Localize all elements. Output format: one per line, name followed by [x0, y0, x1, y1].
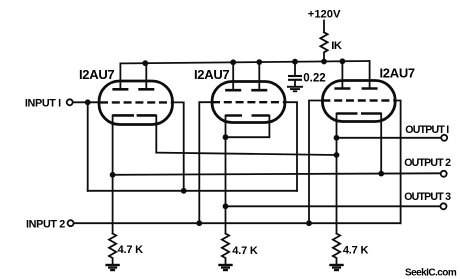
svg-text:INPUT 2: INPUT 2	[26, 219, 65, 231]
svg-text:4.7 K: 4.7 K	[232, 245, 258, 257]
svg-text:4.7 K: 4.7 K	[118, 244, 144, 256]
svg-text:4.7 K: 4.7 K	[343, 245, 369, 257]
svg-text:INPUT I: INPUT I	[25, 97, 61, 109]
svg-text:I2AU7: I2AU7	[79, 67, 114, 82]
svg-text:OUTPUT 2: OUTPUT 2	[404, 157, 451, 169]
svg-text:0.22: 0.22	[303, 71, 326, 84]
svg-text:OUTPUT 3: OUTPUT 3	[404, 191, 451, 203]
svg-text:SeekIC.com: SeekIC.com	[405, 268, 457, 279]
svg-text:IK: IK	[331, 40, 342, 52]
svg-text:I2AU7: I2AU7	[194, 67, 229, 82]
svg-text:OUTPUT I: OUTPUT I	[405, 124, 449, 136]
svg-text:+120V: +120V	[308, 9, 341, 21]
svg-text:I2AU7: I2AU7	[380, 66, 415, 81]
